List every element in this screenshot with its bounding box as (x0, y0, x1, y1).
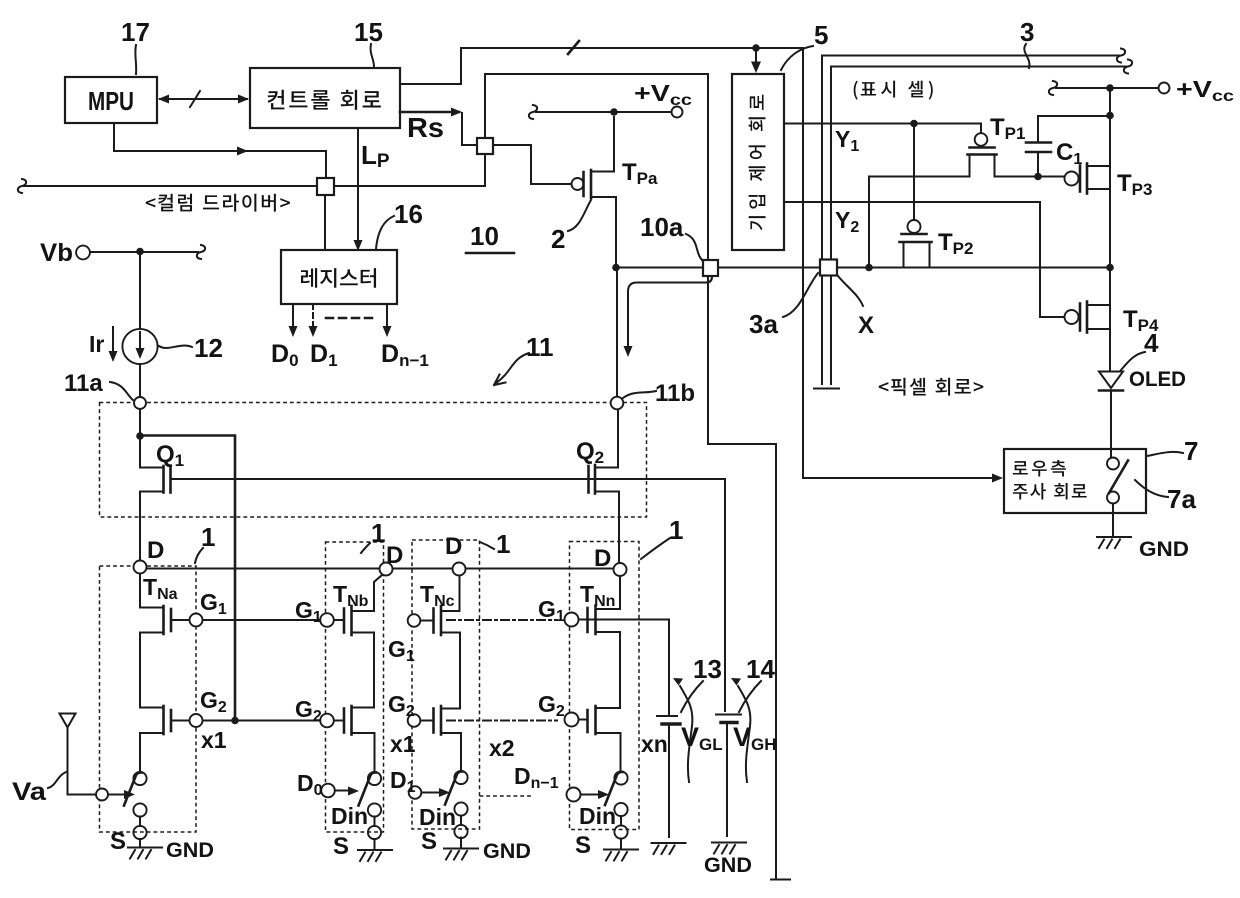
svg-text:14: 14 (746, 654, 775, 684)
svg-text:Va: Va (12, 778, 47, 806)
svg-text:1: 1 (201, 522, 215, 552)
svg-text:Din: Din (331, 803, 368, 829)
svg-text:11: 11 (526, 332, 554, 362)
svg-text:GND: GND (483, 840, 531, 863)
svg-text:10: 10 (470, 221, 499, 251)
svg-text:S: S (575, 832, 591, 859)
svg-text:13: 13 (693, 654, 722, 684)
svg-text:OLED: OLED (1129, 368, 1186, 391)
svg-text:MPU: MPU (88, 86, 134, 116)
svg-text:D: D (594, 545, 611, 572)
svg-text:3a: 3a (749, 309, 778, 339)
svg-text:D: D (386, 542, 403, 569)
svg-text:10a: 10a (640, 212, 684, 242)
svg-text:x1: x1 (201, 727, 227, 753)
svg-text:GND: GND (1139, 538, 1189, 561)
svg-text:4: 4 (1144, 328, 1159, 358)
svg-text:15: 15 (354, 17, 383, 47)
svg-text:5: 5 (814, 20, 828, 50)
svg-text:Din: Din (419, 804, 456, 830)
svg-text:GND: GND (704, 854, 752, 877)
svg-text:Rs: Rs (407, 112, 444, 143)
svg-text:X: X (858, 312, 874, 339)
svg-text:1: 1 (371, 518, 385, 548)
svg-text:12: 12 (194, 333, 223, 363)
svg-text:7: 7 (1184, 436, 1198, 466)
svg-text:D: D (445, 533, 462, 560)
svg-text:S: S (421, 828, 437, 855)
svg-text:Ir: Ir (89, 331, 104, 357)
svg-text:xn: xn (641, 731, 668, 757)
svg-text:x2: x2 (489, 735, 515, 761)
svg-text:11a: 11a (64, 370, 103, 397)
svg-text:D: D (147, 537, 164, 564)
svg-text:17: 17 (121, 17, 150, 47)
svg-text:x1: x1 (390, 731, 416, 757)
svg-text:1: 1 (669, 515, 683, 545)
svg-text:11b: 11b (655, 380, 695, 407)
svg-text:Din: Din (579, 803, 616, 829)
svg-text:3: 3 (1020, 17, 1034, 47)
svg-text:1: 1 (496, 529, 510, 559)
svg-text:16: 16 (394, 199, 423, 229)
svg-text:S: S (333, 833, 349, 860)
svg-text:GND: GND (166, 839, 214, 862)
svg-text:2: 2 (551, 224, 565, 254)
svg-text:S: S (110, 828, 126, 855)
svg-text:Vb: Vb (40, 239, 73, 267)
svg-text:7a: 7a (1167, 484, 1196, 514)
